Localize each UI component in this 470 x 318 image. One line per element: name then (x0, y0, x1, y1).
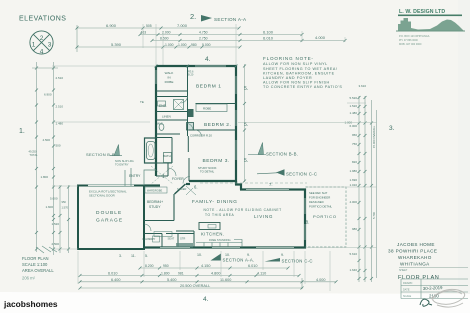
svg-text:KITCHEN.: KITCHEN. (201, 232, 225, 237)
bedroom block outer walls (156, 66, 236, 181)
svg-text:SLIDER: SLIDER (177, 187, 186, 191)
title block address (388, 242, 437, 267)
foyer walls (156, 136, 189, 181)
svg-text:980: 980 (352, 227, 357, 231)
svg-text:PH. 07 866 0000: PH. 07 866 0000 (399, 39, 418, 42)
wall tick marks top of plan (155, 65, 238, 68)
svg-text:1.520: 1.520 (52, 222, 60, 226)
svg-text:TO DETAIL: TO DETAIL (200, 170, 215, 174)
bath room walls (145, 138, 173, 164)
svg-text:SECTION B-B: SECTION B-B (86, 152, 115, 157)
corridor wall (187, 91, 189, 136)
logo underline (398, 15, 462, 17)
circled markers bottom wall (119, 253, 284, 258)
floor plan summary block (22, 256, 54, 281)
svg-text:6.000: 6.000 (349, 124, 357, 128)
svg-text:6.900: 6.900 (106, 23, 117, 28)
svg-text:10.: 10. (197, 253, 202, 257)
svg-text:6.400: 6.400 (111, 278, 121, 282)
svg-text:BEDRM4+: BEDRM4+ (147, 200, 163, 204)
svg-text:B.: B. (306, 220, 310, 225)
svg-text:5.520: 5.520 (349, 96, 357, 100)
svg-text:981: 981 (178, 272, 184, 276)
svg-text:206 m²: 206 m² (22, 276, 36, 281)
svg-text:STUDY: STUDY (149, 205, 161, 209)
svg-text:4.000: 4.000 (316, 278, 326, 282)
title table lines (401, 279, 468, 299)
walk-in robe walls (156, 66, 188, 91)
right dimension column lines (359, 96, 377, 282)
svg-text:10.: 10. (225, 253, 230, 257)
svg-text:4.: 4. (203, 296, 209, 303)
svg-text:STR: STR (180, 237, 185, 241)
svg-text:4.800: 4.800 (211, 272, 221, 276)
svg-text:5.400: 5.400 (167, 278, 177, 282)
svg-text:MOB. 027 000 0000: MOB. 027 000 0000 (399, 43, 422, 46)
garage door opening (88, 185, 134, 187)
section B-B right (248, 154, 266, 156)
entry door cross dashes (151, 166, 173, 184)
svg-text:49.250: 49.250 (29, 150, 37, 154)
svg-text:jacobshomes: jacobshomes (3, 299, 58, 309)
laundry tub (153, 236, 160, 242)
svg-text:2: 2 (40, 35, 44, 42)
svg-text:ELEVATIONS: ELEVATIONS (19, 16, 66, 23)
svg-text:9.: 9. (281, 253, 284, 257)
svg-text:1: 1 (32, 42, 36, 49)
svg-text:L. W. DESIGN LTD: L. W. DESIGN LTD (399, 9, 445, 15)
svg-text:5.610: 5.610 (349, 252, 357, 256)
title rule (399, 267, 468, 269)
svg-text:KITCHEN, BATHROOM, ENSUITE: KITCHEN, BATHROOM, ENSUITE (263, 71, 335, 75)
svg-text:6.: 6. (194, 185, 198, 190)
svg-text:TOTAL: TOTAL (30, 153, 39, 157)
svg-text:950: 950 (163, 264, 169, 268)
svg-text:1.000: 1.000 (178, 43, 187, 47)
svg-text:3.: 3. (389, 125, 395, 132)
svg-text:5.: 5. (244, 158, 248, 164)
svg-text:5.: 5. (244, 86, 248, 92)
svg-text:1.800: 1.800 (161, 272, 170, 276)
svg-text:BATH: BATH (163, 154, 171, 158)
svg-text:TO ENTRY: TO ENTRY (115, 163, 129, 167)
svg-text:ENTRY: ENTRY (129, 174, 141, 178)
logo landscape silhouette (398, 18, 464, 31)
svg-text:FLOOR PLAN: FLOOR PLAN (22, 256, 49, 261)
wc fixture (159, 124, 164, 131)
bedrm2 bottom wall (189, 129, 236, 131)
right wall dimension line (244, 64, 246, 182)
svg-text:4.150: 4.150 (201, 264, 211, 268)
shower box ensuite (174, 100, 184, 110)
svg-text:463: 463 (141, 30, 147, 34)
svg-text:BEDRM 3.: BEDRM 3. (203, 158, 230, 164)
svg-text:SECTION B-B.: SECTION B-B. (266, 151, 298, 156)
svg-text:1.480: 1.480 (349, 111, 357, 115)
svg-text:950: 950 (62, 200, 67, 204)
svg-text:TE: TE (140, 100, 144, 104)
svg-text:3: 3 (48, 42, 52, 49)
portico dashed outline (306, 187, 347, 247)
svg-text:ALLOW FOR NON SLIP FINISH: ALLOW FOR NON SLIP FINISH (263, 81, 330, 85)
svg-text:P.O. BOX 123 WHITIANGA: P.O. BOX 123 WHITIANGA (399, 35, 430, 38)
svg-text:980: 980 (191, 43, 197, 47)
linen wall (156, 119, 188, 121)
svg-text:SECTION A-A.: SECTION A-A. (223, 258, 255, 263)
bedrm4 wardrobe (145, 187, 167, 193)
svg-text:4.500: 4.500 (43, 138, 51, 142)
svg-text:2.000: 2.000 (162, 31, 171, 35)
bottom dimension ticks (79, 267, 338, 290)
svg-text:2.510: 2.510 (56, 76, 64, 80)
logo ground line (396, 31, 465, 32)
bottom dimension lines (80, 268, 336, 289)
svg-text:6.010: 6.010 (263, 36, 274, 41)
section A-A marker top (201, 15, 212, 22)
svg-text:ROBE: ROBE (165, 80, 174, 84)
laundry walls (144, 231, 194, 248)
svg-text:SCALE 1:100: SCALE 1:100 (22, 262, 48, 267)
entry porch lines (125, 168, 156, 186)
bath shower (164, 153, 172, 163)
svg-text:2.500: 2.500 (52, 242, 60, 246)
svg-text:SEAT: SEAT (168, 237, 175, 241)
svg-text:FLOORING NOTE-: FLOORING NOTE- (263, 56, 314, 61)
svg-text:DOUBLE: DOUBLE (96, 210, 122, 216)
elevation key circle (30, 31, 53, 54)
top dimension row 1 (77, 25, 345, 52)
bath tub (147, 142, 156, 160)
svg-text:SCALE: SCALE (403, 295, 412, 298)
section C-C right (257, 173, 277, 174)
svg-text:WALK: WALK (165, 71, 175, 75)
bath bump-out wall (145, 138, 157, 163)
svg-text:LINEN: LINEN (162, 115, 171, 119)
garage extension lines left (52, 66, 156, 249)
svg-text:SEE REF SHT: SEE REF SHT (309, 191, 328, 195)
svg-text:SHEET FLOORING TO WET AREA!: SHEET FLOORING TO WET AREA! (263, 67, 337, 71)
svg-text:SECTION A-A: SECTION A-A (214, 17, 247, 22)
garage walls (78, 186, 144, 250)
section C-C bottom (265, 258, 281, 262)
svg-text:1.800: 1.800 (41, 175, 49, 179)
svg-text:ALLOW FOR NON SLIP VINYL: ALLOW FOR NON SLIP VINYL (263, 62, 328, 66)
hwc cupboard (187, 123, 194, 131)
svg-text:PORTICO DETAIL: PORTICO DETAIL (309, 205, 332, 209)
garage house door arc (144, 224, 151, 231)
svg-text:2.750: 2.750 (199, 37, 208, 41)
bottom white margin strip (0, 292, 470, 313)
svg-text:5.: 5. (244, 122, 248, 128)
svg-text:WHITIANGA: WHITIANGA (400, 262, 430, 267)
main lower block walls (144, 181, 305, 248)
svg-text:750: 750 (352, 142, 357, 146)
svg-text:NON SLIP LDG: NON SLIP LDG (115, 159, 134, 163)
svg-text:7.000: 7.000 (177, 23, 188, 28)
svg-text:4.: 4. (205, 56, 211, 63)
svg-text:820: 820 (352, 160, 357, 164)
svg-text:BEDRM 1: BEDRM 1 (196, 84, 222, 90)
svg-text:500: 500 (56, 144, 61, 148)
svg-text:6.010: 6.010 (248, 264, 258, 268)
left column bottom scribble (36, 246, 57, 253)
svg-text:4.110: 4.110 (257, 272, 266, 276)
ensuite wall (156, 96, 188, 98)
svg-text:8.500: 8.500 (160, 37, 169, 41)
svg-text:TO CONCRETE ENTRY AND PATIO'S: TO CONCRETE ENTRY AND PATIO'S (263, 85, 342, 89)
svg-text:ENS.: ENS. (159, 104, 167, 108)
svg-text:15.000 OVERALL: 15.000 OVERALL (372, 125, 376, 148)
logo address lines (399, 35, 430, 46)
vanity ensuite (158, 101, 166, 106)
bottom dimension labels (108, 264, 326, 288)
svg-text:SECTION C-C: SECTION C-C (286, 172, 317, 177)
svg-text:6.900: 6.900 (44, 93, 52, 97)
bedrm4 study walls (144, 194, 174, 221)
svg-text:1.640: 1.640 (349, 268, 357, 272)
svg-text:1.520: 1.520 (349, 104, 357, 108)
svg-text:4.750: 4.750 (199, 31, 208, 35)
svg-text:1.600: 1.600 (46, 205, 54, 209)
portico note (309, 191, 332, 209)
svg-text:5.000: 5.000 (202, 43, 211, 47)
signature (420, 299, 432, 306)
svg-text:6.010: 6.010 (108, 272, 118, 276)
svg-text:4.000: 4.000 (315, 35, 326, 40)
svg-text:1: 1 (162, 174, 165, 180)
svg-text:FREE STANDING: FREE STANDING (209, 238, 231, 242)
svg-text:11.: 11. (131, 254, 136, 258)
svg-text:DRAWN: DRAWN (403, 282, 413, 285)
svg-text:1.010: 1.010 (349, 183, 357, 187)
svg-text:NOTE - ALLOW FOR SLIDING CABIN: NOTE - ALLOW FOR SLIDING CABINET (204, 208, 282, 212)
top extension lines (143, 24, 345, 66)
svg-text:8.200: 8.200 (145, 264, 154, 268)
kitchen island (199, 223, 220, 230)
left dimension labels (29, 76, 69, 246)
svg-text:1.980: 1.980 (349, 169, 357, 173)
left column top crossbar (32, 67, 58, 69)
svg-text:950: 950 (352, 133, 357, 137)
pencil scribble (431, 289, 465, 307)
svg-text:11.600: 11.600 (220, 278, 231, 282)
right dimension ticks (358, 96, 374, 280)
left dimension ticks (35, 67, 70, 251)
left dimension column lines (37, 62, 69, 255)
chamfer wall foyer to family (175, 184, 186, 194)
svg-text:1.: 1. (19, 128, 25, 135)
svg-text:20.500 OVERALL: 20.500 OVERALL (180, 284, 210, 288)
svg-text:6.100: 6.100 (263, 30, 274, 35)
elevation key numbers (32, 35, 52, 56)
svg-text:B.20: B.20 (188, 73, 194, 77)
svg-text:JACOBS HOME: JACOBS HOME (397, 242, 435, 247)
svg-text:FLOOR PLAN: FLOOR PLAN (398, 275, 439, 281)
svg-text:IN: IN (167, 76, 170, 80)
room label walk-in robe (165, 71, 175, 84)
svg-text:5.700: 5.700 (372, 212, 376, 219)
svg-text:CORRIDOR R.20: CORRIDOR R.20 (190, 134, 212, 138)
svg-text:W.C.: W.C. (157, 122, 164, 126)
svg-text:3.: 3. (119, 254, 122, 258)
section A-A bottom (211, 254, 222, 261)
hall door arcs (168, 96, 202, 184)
svg-text:DESIGNED: DESIGNED (309, 200, 324, 204)
svg-text:LAUNDRY: LAUNDRY (143, 237, 156, 241)
svg-text:FOR ENGINEER: FOR ENGINEER (309, 196, 330, 200)
svg-text:SECTION C-C: SECTION C-C (282, 259, 313, 264)
svg-text:1.690: 1.690 (349, 178, 357, 182)
svg-text:1.570: 1.570 (62, 206, 69, 210)
flooring note (263, 56, 342, 89)
svg-text:3.610: 3.610 (358, 84, 366, 88)
svg-text:DATE: DATE (403, 289, 410, 292)
svg-text:4: 4 (40, 49, 44, 56)
svg-text:4.000: 4.000 (349, 200, 357, 204)
svg-text:WHAREKAHO: WHAREKAHO (398, 255, 432, 260)
family door dashes (186, 186, 196, 195)
svg-text:BEDRM 2.: BEDRM 2. (204, 122, 231, 128)
svg-text:505: 505 (146, 24, 152, 28)
top dimension ticks (76, 27, 347, 49)
svg-text:9.: 9. (247, 253, 250, 257)
svg-text:WARDROBE: WARDROBE (147, 189, 162, 193)
right extension lines (238, 103, 377, 248)
svg-text:2.: 2. (190, 12, 196, 21)
svg-text:GARAGE: GARAGE (96, 218, 123, 224)
right edge light band (458, 0, 470, 294)
svg-text:LIVING: LIVING (254, 214, 273, 219)
svg-text:SECTIONAL DOOR: SECTIONAL DOOR (89, 194, 115, 198)
svg-text:AREA OVERALL: AREA OVERALL (22, 268, 54, 273)
svg-text:5.: 5. (145, 254, 148, 258)
svg-text:5.000: 5.000 (50, 197, 58, 201)
kitchen bench (196, 240, 242, 248)
wc bottom wall (156, 133, 180, 135)
svg-text:FOYER: FOYER (172, 177, 184, 181)
svg-text:5.390: 5.390 (111, 42, 122, 47)
top dimension labels (106, 23, 326, 47)
svg-text:2.510: 2.510 (56, 105, 64, 109)
svg-text:FAMILY- DINING: FAMILY- DINING (192, 199, 238, 204)
right dimension labels (344, 84, 366, 272)
svg-text:30-2-2019: 30-2-2019 (423, 285, 443, 291)
title table labels (403, 282, 413, 298)
svg-text:1.000: 1.000 (165, 43, 174, 47)
bedrm2 top wall and robe (196, 103, 237, 105)
duct block corridor (187, 109, 194, 117)
svg-text:TO THIS AREA: TO THIS AREA (205, 213, 234, 217)
svg-text:LAUNDRY AND FOYER: LAUNDRY AND FOYER (263, 76, 312, 80)
svg-text:ROBE: ROBE (203, 107, 211, 111)
svg-text:PORTICO: PORTICO (313, 214, 337, 219)
window openings (156, 66, 305, 248)
bottom extension lines (78, 251, 330, 291)
eaves dashed line above living (200, 182, 307, 184)
svg-text:SHEET: SHEET (399, 269, 408, 272)
svg-text:38 POWHIRI PLACE: 38 POWHIRI PLACE (388, 249, 437, 254)
svg-text:7.: 7. (269, 182, 273, 187)
